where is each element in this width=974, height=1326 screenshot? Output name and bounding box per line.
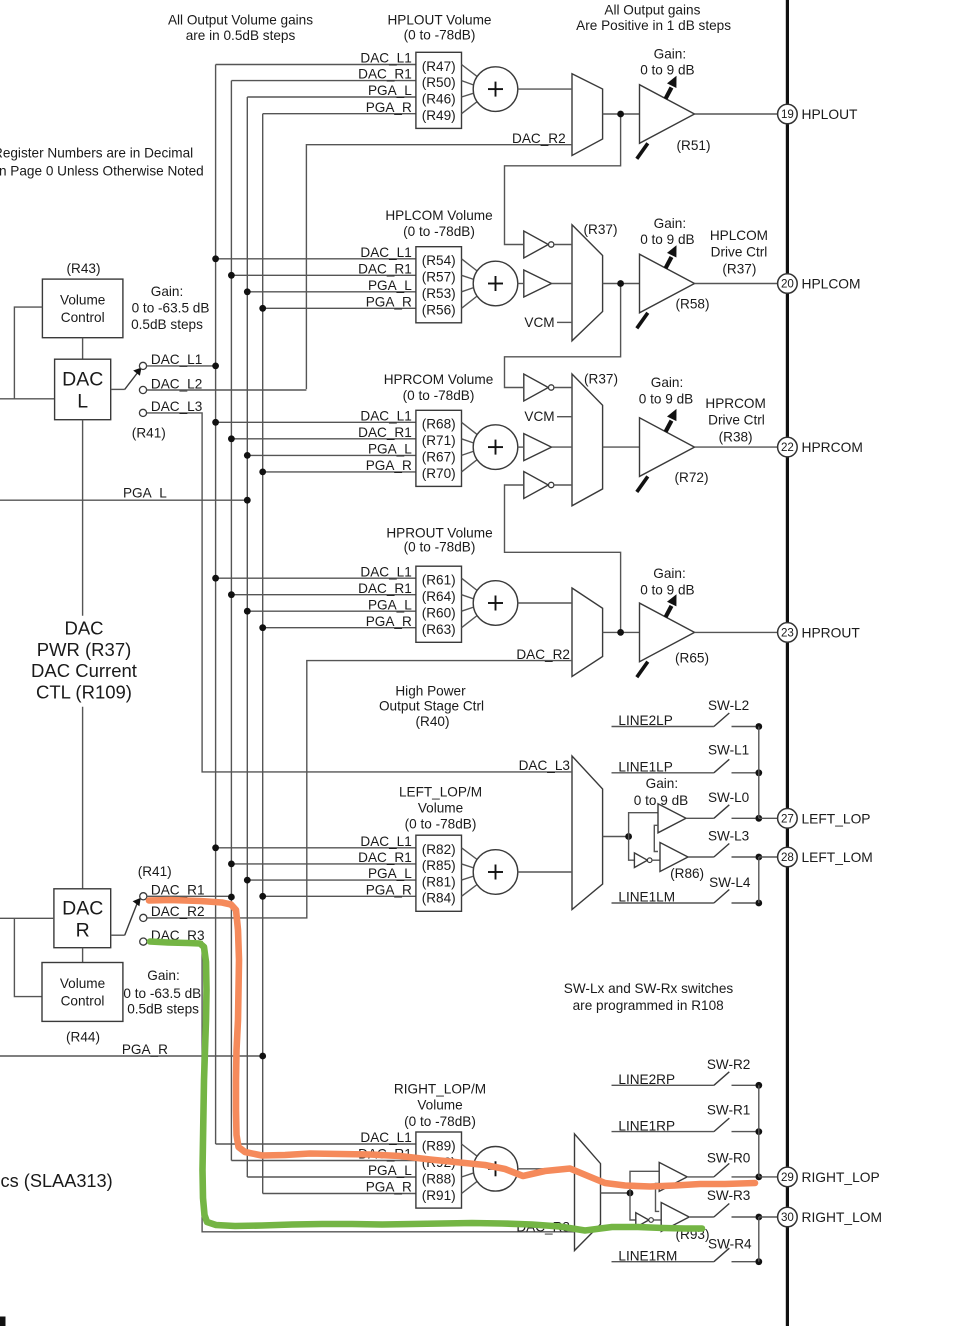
- VCM label HPRCOM: [524, 409, 572, 424]
- svg-text:29: 29: [781, 1171, 794, 1184]
- DAC L box: [55, 359, 111, 420]
- summer (+) HPLCOM: [473, 261, 518, 306]
- mixer title HPLCOM: [385, 208, 492, 239]
- svg-text:RIGHT_LOP: RIGHT_LOP: [802, 1170, 880, 1185]
- summer (+) HPRCOM: [473, 425, 518, 470]
- svg-text:HPLCOM: HPLCOM: [710, 228, 768, 243]
- svg-text:PGA_L: PGA_L: [368, 597, 412, 612]
- svg-text:LEFT_LOM: LEFT_LOM: [802, 850, 873, 865]
- line driver bottom amp LEFT (R86): [660, 843, 704, 882]
- svg-text:(R60): (R60): [422, 606, 456, 621]
- wire PGA_R input row, mixer HPLCOM: [259, 294, 416, 311]
- svg-text:PGA_L: PGA_L: [368, 278, 412, 293]
- svg-text:RIGHT_LOP/M: RIGHT_LOP/M: [394, 1081, 486, 1096]
- wire mux output RIGHT: [601, 1190, 634, 1197]
- rail to pin 28: [759, 857, 778, 903]
- svg-text:(R57): (R57): [422, 270, 456, 285]
- fan-in wires to summer, LEFT_LOP/M: [462, 848, 479, 897]
- wire DAC_R2 to HPROUT mux: [147, 647, 572, 918]
- switch contact DAC_R1: [140, 883, 205, 900]
- wire DAC_R1 input row, mixer HPRCOM: [228, 425, 416, 442]
- wire amp HPRCOM to pin: [695, 446, 778, 448]
- wire PGA_R input row, mixer LEFT_LOP/M: [259, 882, 416, 899]
- highlight green DAC_R3 path: [150, 942, 702, 1231]
- label PGA_R: [0, 1042, 266, 1059]
- svg-text:Gain:: Gain:: [151, 284, 184, 299]
- wire PGA_R input row, mixer HPRCOM: [259, 458, 416, 475]
- inverter HPRCOM top: [524, 374, 572, 401]
- fan-in wires to summer, HPRCOM: [462, 422, 479, 472]
- svg-text:SW-R4: SW-R4: [708, 1237, 752, 1252]
- switch arm DAC R: [111, 898, 141, 935]
- svg-text:0 to -63.5 dB: 0 to -63.5 dB: [123, 986, 201, 1001]
- rail to pin 30: [759, 1217, 778, 1262]
- note HPLCOM drive ctrl R37: [710, 228, 768, 277]
- volume control register box RIGHT_LOP/M: [416, 1132, 462, 1208]
- svg-text:(R81): (R81): [422, 874, 456, 889]
- note HPRCOM drive ctrl R38: [705, 396, 765, 445]
- svg-text:(R54): (R54): [422, 253, 456, 268]
- svg-text:DAC_L3: DAC_L3: [151, 399, 202, 414]
- pin 29 RIGHT_LOP: [778, 1167, 880, 1187]
- svg-text:PGA_L: PGA_L: [368, 1163, 412, 1178]
- gain label DAC R: [123, 968, 201, 1017]
- volume control register box HPRCOM: [416, 410, 462, 486]
- volume control register box LEFT_LOP/M: [416, 835, 462, 911]
- output amplifier HPLOUT (R51): [637, 76, 711, 159]
- svg-text:LEFT_LOP: LEFT_LOP: [802, 811, 871, 826]
- svg-text:HPROUT Volume: HPROUT Volume: [386, 525, 492, 540]
- svg-text:DAC_R1: DAC_R1: [358, 581, 412, 596]
- svg-text:DAC_R1: DAC_R1: [358, 425, 412, 440]
- wire mux output to amp HPROUT: [603, 629, 640, 636]
- svg-text:0 to 9 dB: 0 to 9 dB: [640, 62, 694, 77]
- wire DAC_L1 input row, mixer HPLOUT: [216, 51, 416, 66]
- svg-text:(R44): (R44): [66, 1030, 100, 1045]
- wire HPLCOM node to HPRCOM top inverter: [505, 284, 621, 388]
- svg-text:(0 to -78dB): (0 to -78dB): [403, 224, 475, 239]
- svg-text:DAC_L1: DAC_L1: [360, 408, 411, 423]
- wire DAC L to switch chain down: [82, 420, 84, 889]
- svg-text:(R56): (R56): [422, 303, 456, 318]
- svg-text:SW-R1: SW-R1: [707, 1103, 751, 1118]
- switch contact DAC_L3: [139, 399, 202, 416]
- svg-text:(R70): (R70): [422, 466, 456, 481]
- wire PGA_L input row, mixer HPRCOM: [244, 442, 416, 459]
- svg-text:DAC_R2: DAC_R2: [512, 131, 566, 146]
- fan-in wires to summer, HPROUT: [462, 578, 479, 628]
- svg-text:Control: Control: [61, 994, 105, 1009]
- svg-text:PGA_R: PGA_R: [366, 614, 412, 629]
- svg-text:PWR (R37): PWR (R37): [37, 639, 132, 660]
- wire PGA_L input row, mixer LEFT_LOP/M: [244, 866, 416, 883]
- wire DAC_R3 to RIGHT mux: [147, 942, 575, 1235]
- wire amp HPROUT to pin: [695, 631, 778, 633]
- wire to LEFT top amp: [629, 813, 658, 837]
- wire amp HPLOUT to pin: [695, 113, 778, 115]
- small inverter RIGHT: [636, 1213, 661, 1228]
- wire PGA_R input row, mixer RIGHT_LOP/M: [263, 1180, 416, 1195]
- svg-text:All Output Volume gains: All Output Volume gains: [168, 12, 313, 27]
- wire PGA_L input row, mixer HPLCOM: [244, 278, 416, 295]
- gain label HPROUT amp: [640, 566, 694, 598]
- svg-text:All Output gains: All Output gains: [604, 2, 700, 17]
- svg-text:DAC_R1: DAC_R1: [358, 67, 412, 82]
- coupling bracket LEFT: [654, 825, 658, 851]
- wire to LEFT inverter: [629, 837, 635, 861]
- wire input to volume control L: [14, 307, 42, 399]
- wire DAC_R1 input row, mixer HPROUT: [228, 581, 416, 598]
- mux HPLCOM (R37): [572, 222, 618, 341]
- svg-text:0 to 9 dB: 0 to 9 dB: [639, 391, 693, 406]
- inverter HPRCOM bottom: [524, 472, 572, 499]
- svg-text:(0 to -78dB): (0 to -78dB): [405, 817, 477, 832]
- svg-text:(R61): (R61): [422, 573, 456, 588]
- svg-text:PGA_R: PGA_R: [122, 1042, 168, 1057]
- svg-text:LINE2RP: LINE2RP: [618, 1072, 675, 1087]
- switch contact DAC_L2: [139, 376, 202, 393]
- svg-text:LINE1RM: LINE1RM: [618, 1248, 677, 1263]
- svg-text:(R82): (R82): [422, 842, 456, 857]
- wire input to DAC L: [0, 398, 55, 400]
- svg-text:(R40): (R40): [416, 714, 450, 729]
- small inverter LEFT: [634, 853, 660, 868]
- mux HPROUT: [572, 588, 603, 677]
- wire PGA_L bus vertical: [246, 97, 248, 1177]
- svg-text:(R64): (R64): [422, 589, 456, 604]
- buffer HPRCOM: [518, 434, 572, 461]
- svg-text:27: 27: [781, 812, 794, 825]
- pin 30 RIGHT_LOM: [778, 1207, 882, 1227]
- svg-text:PGA_L: PGA_L: [368, 866, 412, 881]
- svg-text:HPRCOM: HPRCOM: [802, 440, 863, 455]
- svg-text:SW-L4: SW-L4: [709, 875, 751, 890]
- svg-text:30: 30: [781, 1211, 794, 1224]
- svg-text:Gain:: Gain:: [651, 375, 684, 390]
- page corner mark: [0, 1317, 6, 1326]
- svg-text:HPROUT: HPROUT: [802, 625, 861, 640]
- pin 19 HPLOUT: [778, 104, 858, 124]
- VCM label HPLCOM: [524, 315, 572, 330]
- svg-text:DAC: DAC: [62, 898, 103, 920]
- svg-text:(R63): (R63): [422, 622, 456, 637]
- svg-text:Drive Ctrl: Drive Ctrl: [708, 413, 765, 428]
- svg-text:L: L: [77, 391, 88, 413]
- wire input to DAC R: [0, 917, 54, 919]
- svg-text:(R37): (R37): [584, 222, 618, 237]
- svg-text:(R43): (R43): [67, 261, 101, 276]
- svg-text:DAC_R2: DAC_R2: [516, 647, 570, 662]
- svg-text:Register Numbers are in Decima: Register Numbers are in Decimal: [0, 146, 193, 161]
- note: all output gains positive: [576, 2, 731, 33]
- svg-text:DAC_R2: DAC_R2: [151, 904, 205, 919]
- line driver bottom amp RIGHT (R93): [661, 1203, 709, 1243]
- wire DAC_R2 to HPLOUT mux: [306, 131, 572, 389]
- wire mux output to amp HPLCOM: [603, 280, 640, 287]
- wire DAC_L2: [147, 389, 307, 391]
- wire amp HPLCOM to pin: [695, 283, 778, 285]
- note: DAC PWR R37 DAC current CTL R109: [31, 618, 137, 703]
- svg-text:(R41): (R41): [132, 426, 166, 441]
- svg-text:DAC: DAC: [64, 618, 103, 639]
- rail to pin 29: [759, 1085, 778, 1177]
- wire DAC_L1 input row, mixer RIGHT_LOP/M: [216, 1130, 416, 1145]
- svg-text:PGA_R: PGA_R: [366, 100, 412, 115]
- svg-text:(R84): (R84): [422, 891, 456, 906]
- mux HPLOUT: [572, 74, 603, 156]
- svg-text:DAC_L3: DAC_L3: [519, 758, 570, 773]
- wire DAC_L3 to LEFT mux: [147, 413, 572, 773]
- svg-text:(0 to -78dB): (0 to -78dB): [404, 540, 476, 555]
- svg-text:SW-R2: SW-R2: [707, 1057, 751, 1072]
- svg-text:0 to 9 dB: 0 to 9 dB: [640, 583, 694, 598]
- gain label HPLCOM amp: [640, 216, 694, 247]
- svg-text:DAC Current: DAC Current: [31, 660, 137, 681]
- svg-text:(R67): (R67): [422, 450, 456, 465]
- wire DAC_L1 input row, mixer HPLCOM: [212, 245, 416, 262]
- note: SW-Lx SW-Rx switches programmed in R108: [564, 981, 734, 1013]
- gain label HPRCOM amp: [639, 375, 693, 407]
- note: register numbers in decimal: [0, 146, 204, 179]
- highlight orange DAC_R1 path: [149, 900, 755, 1187]
- wire PGA_R bus vertical: [262, 114, 264, 1194]
- wire PGA_L input row, mixer RIGHT_LOP/M: [247, 1163, 416, 1178]
- wire DAC_R1 input row, mixer HPLOUT: [231, 67, 416, 82]
- fan-in wires to summer, RIGHT_LOP/M: [462, 1144, 479, 1194]
- wire mux output LEFT: [603, 833, 632, 840]
- wire summer to mux RIGHT: [518, 1168, 575, 1170]
- summer (+) HPLOUT: [473, 67, 518, 112]
- mux LEFT_LOP/M: [572, 756, 603, 910]
- switch contact DAC_R2: [140, 904, 205, 921]
- pin 28 LEFT_LOM: [778, 847, 873, 867]
- svg-text:High Power: High Power: [395, 683, 466, 698]
- svg-text:(R65): (R65): [675, 651, 709, 666]
- svg-text:Drive Ctrl: Drive Ctrl: [711, 245, 768, 260]
- svg-text:PGA_R: PGA_R: [366, 1180, 412, 1195]
- volume control register box HPLCOM: [416, 247, 462, 323]
- svg-text:DAC_L1: DAC_L1: [360, 834, 411, 849]
- wire to RIGHT top amp: [630, 1171, 659, 1193]
- svg-text:20: 20: [781, 278, 794, 291]
- svg-text:(0 to -78dB): (0 to -78dB): [404, 1114, 476, 1129]
- svg-text:Schematics (SLAA313): Schematics (SLAA313): [0, 1171, 113, 1191]
- switch contact DAC_R3: [140, 928, 205, 945]
- svg-text:(R72): (R72): [675, 470, 709, 485]
- svg-text:DAC: DAC: [62, 369, 103, 391]
- svg-text:LINE1LM: LINE1LM: [618, 890, 675, 905]
- svg-text:(R41): (R41): [138, 864, 172, 879]
- svg-text:(R37): (R37): [584, 372, 618, 387]
- svg-text:SW-Lx and SW-Rx switches: SW-Lx and SW-Rx switches: [564, 981, 734, 996]
- svg-text:DAC_L1: DAC_L1: [360, 1130, 411, 1145]
- pin 20 HPLCOM: [778, 274, 861, 294]
- wire PGA_R input row, mixer HPROUT: [259, 614, 416, 631]
- svg-text:DAC_L2: DAC_L2: [151, 376, 202, 391]
- svg-text:SW-R3: SW-R3: [707, 1188, 751, 1203]
- svg-text:are programmed in R108: are programmed in R108: [573, 998, 724, 1013]
- fan-in wires to summer, HPLCOM: [462, 259, 479, 309]
- summer (+) LEFT_LOP/M: [473, 850, 518, 895]
- wire DAC_L1 to bus: [147, 363, 219, 370]
- svg-text:(R88): (R88): [422, 1171, 456, 1186]
- svg-text:23: 23: [781, 626, 794, 639]
- wire PGA_L input row, mixer HPROUT: [244, 597, 416, 614]
- label PGA_L: [0, 486, 251, 504]
- svg-text:(R71): (R71): [422, 433, 456, 448]
- wire volume control L to DAC L: [82, 338, 84, 360]
- svg-text:PGA_R: PGA_R: [366, 458, 412, 473]
- svg-text:Control: Control: [61, 310, 105, 325]
- svg-text:LINE1RP: LINE1RP: [618, 1118, 675, 1133]
- summer (+) RIGHT_LOP/M: [473, 1147, 518, 1192]
- svg-text:(R51): (R51): [677, 138, 711, 153]
- fan-in wires to summer, HPLOUT: [462, 65, 479, 114]
- summer (+) HPROUT: [473, 581, 518, 626]
- note: schematics SLAA313: [0, 1171, 113, 1191]
- wire DAC_L1 bus vertical: [215, 65, 217, 1145]
- svg-text:0 to -63.5 dB: 0 to -63.5 dB: [132, 301, 210, 316]
- svg-text:Volume: Volume: [60, 976, 105, 991]
- wire summer to mux HPROUT: [518, 602, 572, 604]
- output amplifier HPRCOM (R72): [637, 409, 709, 492]
- svg-text:Volume: Volume: [417, 1098, 462, 1113]
- svg-text:DAC_R1: DAC_R1: [151, 883, 205, 898]
- wire to RIGHT inverter: [630, 1193, 636, 1220]
- svg-text:PGA_L: PGA_L: [123, 486, 167, 501]
- wire HPLOUT node to HPLCOM inverter: [505, 114, 621, 245]
- svg-text:(R47): (R47): [422, 59, 456, 74]
- svg-text:DAC_L1: DAC_L1: [360, 245, 411, 260]
- wire DAC_L1 input row, mixer LEFT_LOP/M: [212, 834, 416, 851]
- svg-text:HPLOUT Volume: HPLOUT Volume: [387, 12, 491, 27]
- mixer title LEFT_LOP/M: [399, 784, 482, 831]
- svg-text:(0 to -78dB): (0 to -78dB): [403, 388, 475, 403]
- svg-text:DAC_R1: DAC_R1: [358, 261, 412, 276]
- svg-text:(R58): (R58): [676, 297, 710, 312]
- mux HPRCOM (R37): [572, 372, 618, 506]
- svg-text:28: 28: [781, 851, 794, 864]
- pin 23 HPROUT: [778, 623, 861, 643]
- switch arm DAC L: [111, 368, 142, 390]
- volume control register box HPROUT: [416, 566, 462, 642]
- svg-text:PGA_R: PGA_R: [366, 294, 412, 309]
- DAC R box: [54, 889, 111, 948]
- mixer title HPROUT: [386, 525, 492, 554]
- svg-text:SW-L1: SW-L1: [708, 742, 749, 757]
- svg-text:19: 19: [781, 108, 794, 121]
- svg-text:(0 to -78dB): (0 to -78dB): [404, 27, 476, 42]
- svg-text:Gain:: Gain:: [653, 566, 686, 581]
- wire DAC_R1 input row, mixer RIGHT_LOP/M: [231, 1147, 416, 1162]
- line driver top amp LEFT: [658, 804, 686, 833]
- note: high power output stage ctrl R40: [379, 683, 484, 729]
- svg-text:SW-L0: SW-L0: [708, 790, 750, 805]
- svg-text:Gain:: Gain:: [147, 968, 180, 983]
- svg-text:are in 0.5dB steps: are in 0.5dB steps: [186, 28, 296, 43]
- svg-text:SW-L3: SW-L3: [708, 828, 749, 843]
- svg-text:Gain:: Gain:: [654, 46, 687, 61]
- wire mux output to amp HPLOUT: [603, 111, 640, 118]
- svg-text:HPLCOM Volume: HPLCOM Volume: [385, 208, 492, 223]
- wire summer to mux LEFT: [518, 871, 572, 873]
- buffer HPLCOM: [518, 270, 572, 297]
- inverter HPLCOM top: [524, 231, 572, 258]
- wire DAC_L1 input row, mixer HPRCOM: [212, 408, 416, 425]
- svg-text:DAC_R1: DAC_R1: [358, 850, 412, 865]
- svg-text:PGA_R: PGA_R: [366, 882, 412, 897]
- line driver top amp RIGHT: [659, 1162, 687, 1191]
- pin 22 HPRCOM: [778, 437, 863, 457]
- note: all output volume gains: [168, 12, 313, 43]
- svg-text:VCM: VCM: [524, 315, 554, 330]
- wire DAC_R1 bus vertical: [230, 81, 232, 1161]
- mixer title HPLOUT: [387, 12, 491, 42]
- svg-text:(R50): (R50): [422, 75, 456, 90]
- svg-text:(R91): (R91): [422, 1188, 456, 1203]
- volume control register box HPLOUT: [416, 52, 462, 128]
- wire DAC_L1 input row, mixer HPROUT: [212, 564, 416, 581]
- wire mux output to amp HPRCOM: [603, 446, 640, 448]
- svg-text:22: 22: [781, 441, 794, 454]
- svg-text:VCM: VCM: [524, 409, 554, 424]
- wire DAC_R1 to bus: [147, 894, 235, 901]
- mux RIGHT_LOP/M: [575, 1134, 601, 1251]
- svg-text:0.5dB steps: 0.5dB steps: [131, 317, 203, 332]
- svg-text:(R53): (R53): [422, 286, 456, 301]
- gain label HPLOUT amp: [640, 46, 694, 77]
- svg-text:DAC_L1: DAC_L1: [360, 51, 411, 66]
- pin 27 LEFT_LOP: [778, 809, 871, 829]
- svg-text:(R89): (R89): [422, 1138, 456, 1153]
- svg-text:HPRCOM Volume: HPRCOM Volume: [384, 372, 494, 387]
- wire HPROUT node to HPRCOM bottom inverter: [505, 485, 621, 632]
- svg-text:HPLCOM: HPLCOM: [802, 277, 861, 292]
- svg-text:CTL (R109): CTL (R109): [36, 682, 132, 703]
- svg-text:HPRCOM: HPRCOM: [705, 396, 765, 411]
- svg-text:LINE1LP: LINE1LP: [618, 760, 672, 775]
- mixer title HPRCOM: [384, 372, 494, 403]
- svg-text:Gain:: Gain:: [654, 216, 687, 231]
- svg-text:(R85): (R85): [422, 858, 456, 873]
- svg-text:0 to 9 dB: 0 to 9 dB: [634, 793, 688, 808]
- rail to pin 27: [759, 727, 778, 819]
- output amplifier HPROUT (R65): [637, 594, 709, 677]
- svg-text:(R37): (R37): [722, 261, 756, 276]
- svg-text:Volume: Volume: [60, 293, 105, 308]
- svg-text:LINE2LP: LINE2LP: [618, 713, 672, 728]
- mixer title RIGHT_LOP/M: [394, 1081, 486, 1129]
- svg-text:(R68): (R68): [422, 417, 456, 432]
- gain label DAC L: [131, 284, 209, 332]
- wire input to volume control R: [14, 918, 42, 996]
- wire DAC_R1 input row, mixer LEFT_LOP/M: [228, 850, 416, 867]
- svg-text:RIGHT_LOM: RIGHT_LOM: [802, 1210, 883, 1225]
- svg-text:Output Stage Ctrl: Output Stage Ctrl: [379, 699, 484, 714]
- svg-text:PGA_L: PGA_L: [368, 442, 412, 457]
- wire PGA_R input row, mixer HPLOUT: [263, 100, 416, 115]
- wire summer to mux HPLOUT: [518, 88, 572, 90]
- wire DAC_R1 input row, mixer HPLCOM: [228, 261, 416, 278]
- svg-text:DAC_L1: DAC_L1: [151, 352, 202, 367]
- output amplifier HPLCOM (R58): [637, 245, 710, 328]
- svg-text:HPLOUT: HPLOUT: [802, 107, 859, 122]
- svg-text:Volume: Volume: [418, 801, 463, 816]
- chip boundary line: [786, 0, 789, 1326]
- svg-text:R: R: [76, 920, 90, 942]
- volume control box L (R43): [42, 279, 123, 338]
- svg-text:DAC_L1: DAC_L1: [360, 564, 411, 579]
